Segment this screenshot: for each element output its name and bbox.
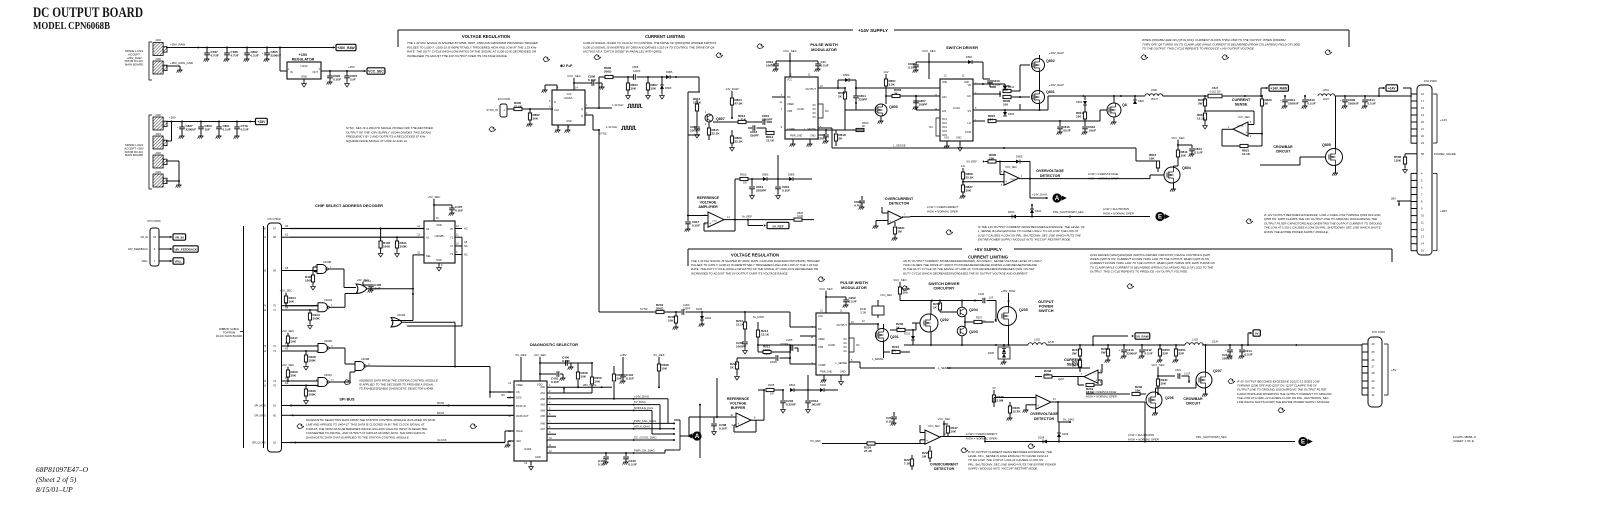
diode D801 bbox=[962, 61, 968, 63]
svg-text:VOLTAGE: VOLTAGE bbox=[700, 200, 717, 204]
svg-text:TO THE OUTPUT. THIS CYCLE RE: TO THE OUTPUT. THIS CYCLE REPEATS TO PRO… bbox=[1142, 47, 1255, 51]
wire U400A out bbox=[329, 306, 345, 308]
svg-text:L800: L800 bbox=[1151, 88, 1157, 92]
svg-text:PRL_SHUTDOWN_SEC: PRL_SHUTDOWN_SEC bbox=[1053, 210, 1084, 214]
pin 20 P300 bbox=[1411, 121, 1417, 123]
svg-text:VCC_SEC: VCC_SEC bbox=[893, 278, 906, 282]
brace +28V pins bbox=[1433, 172, 1437, 174]
note 14v overcurrent bbox=[946, 230, 953, 235]
resistor R802 10K bbox=[529, 108, 531, 110]
resistor R830 12K bbox=[988, 160, 996, 163]
svg-text:Q202: Q202 bbox=[940, 318, 949, 322]
resistor R216 2W bbox=[1079, 345, 1081, 349]
svg-text:1M: 1M bbox=[898, 229, 903, 233]
svg-text:CROWBAR: CROWBAR bbox=[1183, 397, 1203, 401]
wire hin straight bbox=[856, 87, 940, 89]
resistor R403b 100K bbox=[309, 309, 311, 311]
svg-text:0.1UF: 0.1UF bbox=[562, 359, 570, 363]
svg-text:VREF: VREF bbox=[818, 337, 825, 341]
net label 5V_REF box bbox=[767, 222, 789, 228]
svg-text:-: - bbox=[1245, 124, 1246, 128]
capacitor C208b 0.1UF bbox=[716, 378, 718, 417]
resistor R820 2K bbox=[1261, 96, 1263, 99]
svg-text:OUTPUT. THIS CYCLE REPEATS T: OUTPUT. THIS CYCLE REPEATS TO PRODUCE +5… bbox=[1090, 269, 1188, 273]
svg-text:E: E bbox=[1158, 215, 1162, 221]
svg-text:LO: LO bbox=[968, 121, 971, 125]
resistor R808 22.1K bbox=[961, 172, 964, 179]
pin AN 8 bbox=[547, 428, 556, 430]
svg-text:NC: NC bbox=[501, 393, 505, 397]
ground VAC bbox=[508, 440, 514, 442]
svg-text:HO: HO bbox=[967, 94, 971, 98]
wire U200 comp2 bbox=[790, 363, 816, 365]
svg-text:D802: D802 bbox=[1008, 112, 1015, 116]
capacitor C207 220PF bbox=[737, 357, 775, 359]
svg-text:J106: J106 bbox=[155, 57, 161, 61]
svg-text:1000UF: 1000UF bbox=[1288, 101, 1299, 105]
svg-text:Q201: Q201 bbox=[890, 335, 899, 339]
svg-text:A: A bbox=[695, 434, 700, 440]
net label 5V_RAW bbox=[1135, 333, 1150, 339]
wire ovd out bbox=[1019, 178, 1030, 180]
svg-text:OUT: OUT bbox=[312, 70, 318, 74]
wire sync down bbox=[598, 130, 600, 136]
diode D209 bbox=[1057, 433, 1061, 437]
bracket diag nets bbox=[674, 419, 680, 421]
svg-text:12.1K: 12.1K bbox=[766, 138, 775, 142]
svg-text:TO ENABLE/DISABLE DIAGNOSTIC S: TO ENABLE/DISABLE DIAGNOSTIC SELECTOR U4… bbox=[359, 386, 434, 390]
svg-text:CIRCUIT: CIRCUIT bbox=[1186, 402, 1201, 406]
svg-text:DIAGNOSTIC SELECTION DATA FROM: DIAGNOSTIC SELECTION DATA FROM THE STATI… bbox=[306, 418, 435, 422]
svg-text:1000PF: 1000PF bbox=[690, 128, 701, 132]
svg-text:U200: U200 bbox=[828, 343, 835, 347]
svg-text:+14V SUPPLY: +14V SUPPLY bbox=[858, 28, 888, 33]
svg-text:0.33UF: 0.33UF bbox=[786, 402, 796, 406]
svg-text:J103: J103 bbox=[155, 170, 161, 174]
svg-text:0.1UF: 0.1UF bbox=[251, 53, 259, 57]
pin AN 1 bbox=[547, 386, 556, 388]
svg-text:VR_IN: VR_IN bbox=[140, 235, 148, 239]
svg-text:NC: NC bbox=[844, 346, 848, 349]
svg-text:3V: 3V bbox=[992, 386, 996, 390]
svg-text:12.1K: 12.1K bbox=[1242, 152, 1251, 156]
svg-text:0.1UF: 0.1UF bbox=[719, 426, 727, 430]
wire P3 bbox=[290, 345, 318, 347]
svg-text:D804: D804 bbox=[789, 383, 796, 387]
svg-text:CROWBAR: CROWBAR bbox=[1273, 145, 1293, 149]
svg-text:2200PF: 2200PF bbox=[762, 117, 773, 121]
svg-text:(SHEET 1 OF 3): (SHEET 1 OF 3) bbox=[1453, 439, 1474, 443]
svg-text:NC: NC bbox=[844, 338, 848, 341]
svg-text:0.1UF: 0.1UF bbox=[629, 462, 637, 466]
svg-text:NC1: NC1 bbox=[942, 118, 947, 121]
svg-text:Q802: Q802 bbox=[1046, 59, 1055, 63]
svg-text:DETECTOR: DETECTOR bbox=[934, 467, 955, 471]
svg-text:C204: C204 bbox=[978, 292, 985, 296]
net PWR_FAIL_DIAG bbox=[556, 422, 674, 424]
svg-text:+: + bbox=[1005, 180, 1007, 184]
svg-text:Q206: Q206 bbox=[1165, 396, 1174, 400]
wire U104A preset gnd bbox=[556, 85, 558, 90]
pin 14 P300b bbox=[1411, 243, 1417, 245]
svg-text:12.7K: 12.7K bbox=[1013, 409, 1022, 413]
svg-text:2200PF: 2200PF bbox=[756, 188, 767, 192]
pin Y1 wire bbox=[455, 236, 462, 238]
resistor R214 2K bbox=[1078, 360, 1081, 367]
svg-text:10K: 10K bbox=[595, 379, 601, 383]
resistor R813 1.21K bbox=[713, 121, 738, 123]
svg-text:10K: 10K bbox=[631, 86, 637, 90]
resistor R801 3.2K bbox=[884, 79, 887, 86]
hand L800 3 bbox=[1325, 50, 1332, 55]
mosfet Q805 bbox=[1326, 149, 1343, 166]
svg-text:P3: P3 bbox=[285, 342, 289, 346]
svg-text:A5: A5 bbox=[464, 240, 468, 244]
svg-text:(Sheet 2 of 5): (Sheet 2 of 5) bbox=[36, 475, 77, 484]
svg-text:CHIP SELECT ADDRESS DECODER: CHIP SELECT ADDRESS DECODER bbox=[315, 203, 383, 208]
svg-text:GND: GND bbox=[566, 120, 572, 123]
svg-text:REFERENCE: REFERENCE bbox=[727, 397, 750, 401]
resistor R218 10K bbox=[1035, 376, 1042, 378]
svg-text:LOW = SHUTDOWN: LOW = SHUTDOWN bbox=[1128, 433, 1155, 437]
svg-text:P/O P200: P/O P200 bbox=[147, 219, 160, 223]
svg-text:INTLK_DIAG: INTLK_DIAG bbox=[634, 424, 650, 428]
wire VS out bbox=[973, 109, 1020, 111]
svg-text:Q: Q bbox=[581, 114, 583, 118]
svg-text:RC: RC bbox=[818, 327, 822, 331]
resistor R207 10 bbox=[965, 321, 974, 323]
resistor R229 1M bbox=[929, 446, 931, 450]
svg-text:2.5M: 2.5M bbox=[997, 398, 1004, 402]
svg-text:LOW = OVERCURRENT: LOW = OVERCURRENT bbox=[966, 432, 997, 436]
wire U101 riser bbox=[734, 179, 736, 220]
resistor R458 10K bbox=[577, 380, 579, 387]
svg-text:220PF: 220PF bbox=[770, 361, 778, 364]
svg-text:VRLL: VRLL bbox=[175, 259, 183, 263]
svg-text:-: - bbox=[1005, 173, 1006, 177]
resistor R809 100 bbox=[973, 93, 1000, 95]
svg-text:VCC_SEC: VCC_SEC bbox=[567, 74, 581, 78]
resistor R203 1K bbox=[890, 329, 897, 331]
svg-text:J101: J101 bbox=[155, 132, 161, 136]
pin 6 P300b bbox=[1411, 186, 1417, 188]
capacitor C212b 0.1UF bbox=[1141, 345, 1143, 349]
wire U401B out bbox=[403, 321, 456, 323]
resistor R402 100K bbox=[380, 229, 382, 242]
svg-text:22P: 22P bbox=[1179, 351, 1184, 355]
wire +28V rail bbox=[166, 121, 255, 123]
wire l_sense long bbox=[832, 147, 1136, 149]
nc bracket U110 bbox=[936, 118, 940, 136]
svg-text:SENSE: SENSE bbox=[1235, 103, 1248, 107]
ground J106 bbox=[177, 69, 182, 71]
svg-text:VCC_SEC: VCC_SEC bbox=[922, 49, 936, 53]
svg-text:10K: 10K bbox=[291, 339, 297, 343]
diode D805 bbox=[648, 76, 666, 78]
svg-text:Y0: Y0 bbox=[450, 227, 454, 231]
svg-text:CURRENT: CURRENT bbox=[1064, 358, 1083, 362]
wire U200 vfb bbox=[800, 335, 816, 337]
svg-text:0.1UF: 0.1UF bbox=[1195, 150, 1203, 154]
ground C786 bbox=[224, 58, 229, 60]
net label VCC_SEC box bbox=[364, 70, 366, 72]
svg-text:100UF: 100UF bbox=[766, 63, 775, 67]
svg-text:0.1UF: 0.1UF bbox=[1308, 101, 1316, 105]
svg-text:U100: U100 bbox=[797, 107, 804, 111]
nc bracket U100 bbox=[818, 104, 823, 118]
svg-text:+28V: +28V bbox=[1440, 209, 1447, 213]
marker A bottom bbox=[692, 431, 701, 440]
svg-text:D805: D805 bbox=[666, 70, 673, 74]
svg-text:0.1UF: 0.1UF bbox=[1145, 351, 1153, 355]
svg-text:NC: NC bbox=[856, 343, 860, 347]
svg-text:VSS: VSS bbox=[944, 137, 949, 140]
svg-text:+28V: +28V bbox=[620, 353, 627, 357]
svg-text:SPI BUS: SPI BUS bbox=[339, 398, 355, 402]
svg-text:100: 100 bbox=[903, 290, 908, 294]
svg-text:D: D bbox=[554, 100, 556, 104]
resistor R205 10K bbox=[675, 312, 677, 316]
resistor R230 10K bbox=[1122, 393, 1130, 395]
capacitor C204 bbox=[975, 300, 982, 302]
bus +14V pins bbox=[1410, 94, 1412, 143]
svg-text:Y2: Y2 bbox=[450, 244, 454, 248]
marker E top bbox=[1155, 212, 1164, 221]
svg-text:0.1UF: 0.1UF bbox=[908, 65, 916, 69]
svg-text:SWITCH DRIVER: SWITCH DRIVER bbox=[946, 45, 978, 50]
svg-text:DATA IN: DATA IN bbox=[516, 404, 526, 408]
svg-text:VFB: VFB bbox=[818, 345, 823, 349]
wire CS link bbox=[455, 366, 490, 368]
svg-text:0.1UF: 0.1UF bbox=[1368, 101, 1376, 105]
pin 17 P300 bbox=[1411, 100, 1417, 102]
pin 12 P300b bbox=[1411, 229, 1417, 231]
connector J101 bbox=[153, 136, 163, 149]
svg-text:RIBBON CABLE: RIBBON CABLE bbox=[219, 327, 239, 331]
capacitor C811 1000UF bbox=[1284, 96, 1286, 99]
svg-text:VCC: VCC bbox=[787, 79, 792, 82]
svg-text:5V_REF: 5V_REF bbox=[810, 439, 821, 443]
ground U103 bbox=[303, 79, 305, 82]
nc bracket U200 bbox=[849, 338, 854, 352]
resistor R211 100K bbox=[757, 345, 759, 352]
wire A3 bbox=[290, 350, 318, 352]
resistor R231 10K bbox=[1157, 376, 1159, 379]
svg-text:U103: U103 bbox=[301, 64, 308, 68]
svg-text:+: + bbox=[737, 422, 739, 426]
svg-text:Y1: Y1 bbox=[450, 236, 454, 240]
pin 19 P300 bbox=[1411, 114, 1417, 116]
svg-text:A0: A0 bbox=[285, 224, 289, 228]
ground U200 pins bbox=[823, 375, 825, 380]
svg-text:Q: Q bbox=[581, 107, 583, 111]
svg-text:D808: D808 bbox=[788, 173, 795, 177]
resistor R804 1K bbox=[844, 88, 846, 92]
svg-text:Q800: Q800 bbox=[889, 105, 898, 109]
svg-text:CLOCK: CLOCK bbox=[437, 438, 447, 442]
capacitor C816 .01UF bbox=[1059, 121, 1061, 126]
svg-text:U402B: U402B bbox=[435, 234, 444, 238]
svg-text:10K: 10K bbox=[1149, 156, 1155, 160]
resistor R803 2K bbox=[885, 95, 887, 97]
svg-text:VCC_SEC: VCC_SEC bbox=[1151, 363, 1164, 367]
net label +14V_RAW bbox=[1269, 85, 1288, 91]
svg-text:SYNC: SYNC bbox=[599, 132, 607, 136]
svg-text:POWER_SHARE: POWER_SHARE bbox=[1434, 152, 1456, 156]
resistor R208 1W bbox=[758, 389, 764, 391]
svg-text:Q207: Q207 bbox=[1213, 369, 1222, 373]
svg-text:J104: J104 bbox=[155, 38, 161, 42]
net 5V_DIAG bbox=[556, 404, 660, 406]
resistor R204 1K bbox=[900, 300, 975, 302]
svg-text:CS: CS bbox=[516, 390, 520, 394]
svg-text:MISO: MISO bbox=[437, 411, 445, 415]
pin 16 P300 bbox=[1411, 93, 1417, 95]
pin 11 P300b bbox=[1411, 222, 1417, 224]
svg-text:0.1UF: 0.1UF bbox=[692, 223, 700, 227]
svg-text:1.33 KHz: 1.33 KHz bbox=[612, 103, 624, 107]
resistor R900 21.6K bbox=[507, 108, 514, 110]
mosfet Q201 bbox=[876, 329, 889, 342]
note address data bbox=[344, 380, 351, 385]
svg-text:10K: 10K bbox=[966, 188, 972, 192]
svg-text:LIN: LIN bbox=[942, 109, 946, 113]
svg-text:0.1UF: 0.1UF bbox=[333, 77, 341, 81]
svg-text:P/O P300: P/O P300 bbox=[1372, 330, 1385, 334]
svg-text:120PF: 120PF bbox=[633, 70, 641, 73]
svg-text:RC: RC bbox=[787, 95, 791, 99]
wire U101 left vertical bbox=[687, 135, 689, 216]
svg-text:SPI_CLOCK: SPI_CLOCK bbox=[252, 442, 266, 445]
pin AN 12 bbox=[547, 452, 556, 454]
brace +14V pins bbox=[1433, 93, 1437, 95]
svg-text:-: - bbox=[889, 212, 890, 216]
svg-text:+28V_RAW: +28V_RAW bbox=[1049, 83, 1064, 87]
svg-text:+14V_RAW: +14V_RAW bbox=[1270, 86, 1287, 90]
svg-text:+5V_SEC: +5V_SEC bbox=[282, 363, 295, 367]
svg-text:Y3: Y3 bbox=[450, 252, 454, 256]
svg-text:-: - bbox=[926, 432, 927, 436]
wire ovd2 to crowbar bbox=[1086, 393, 1122, 395]
ground C826 bbox=[327, 81, 332, 83]
svg-text:+28V_RAW: +28V_RAW bbox=[337, 46, 355, 50]
node regulator drop bbox=[279, 47, 281, 49]
resistor R825 sense bbox=[1208, 94, 1222, 98]
svg-text:A2: A2 bbox=[285, 381, 289, 385]
svg-text:CURRENT LIMITING: CURRENT LIMITING bbox=[645, 34, 685, 39]
hand CL top 3 bbox=[757, 44, 764, 49]
wire ovd2 out bbox=[1058, 401, 1145, 403]
svg-text:+: + bbox=[709, 222, 711, 226]
wire +28V_RAW_GND bbox=[166, 65, 180, 67]
wire l_sense U100 bbox=[818, 127, 832, 129]
capacitor C816b bbox=[1084, 124, 1086, 126]
capacitor C814 0.1UF bbox=[1364, 96, 1366, 99]
gate U400B2 bbox=[355, 362, 365, 371]
svg-text:L_SENSE: L_SENSE bbox=[835, 361, 847, 365]
svg-text:100: 100 bbox=[1076, 114, 1081, 118]
svg-text:C207: C207 bbox=[764, 352, 771, 356]
resistor R815 22.1K bbox=[708, 122, 710, 128]
op-amp U202A cs2 bbox=[1084, 370, 1098, 383]
svg-text:10K: 10K bbox=[951, 429, 957, 433]
mosfet Q202 bbox=[920, 314, 938, 332]
wire rail 5v 2 bbox=[1046, 344, 1102, 346]
svg-text:GND: GND bbox=[436, 258, 442, 262]
svg-text:22UH: 22UH bbox=[1048, 341, 1055, 344]
svg-text:NC: NC bbox=[464, 244, 468, 248]
svg-text:REFERENCE: REFERENCE bbox=[697, 196, 720, 200]
svg-text:+5V_SEC: +5V_SEC bbox=[282, 329, 295, 333]
wire +28V_RAW bbox=[166, 47, 280, 49]
capacitor C807b 100PF bbox=[915, 96, 917, 100]
wire rail2 bbox=[1163, 95, 1208, 97]
svg-text:MODULATOR: MODULATOR bbox=[841, 285, 867, 290]
svg-text:.1UF: .1UF bbox=[988, 297, 994, 300]
svg-text:NC3: NC3 bbox=[942, 126, 947, 129]
resistor R831 bbox=[894, 222, 896, 226]
svg-text:120PF: 120PF bbox=[683, 307, 691, 310]
svg-text:POWER: POWER bbox=[1039, 305, 1054, 309]
ground C827 bbox=[179, 135, 184, 137]
wire Qbar out bbox=[585, 114, 593, 116]
resistor R250 22 bbox=[1159, 345, 1161, 349]
svg-text:NC: NC bbox=[464, 253, 468, 257]
svg-text:CLK: CLK bbox=[554, 108, 559, 112]
svg-text:NC: NC bbox=[813, 116, 817, 119]
svg-text:4.7UF: 4.7UF bbox=[211, 53, 219, 57]
svg-text:10K: 10K bbox=[533, 116, 539, 120]
svg-text:.01UF: .01UF bbox=[1088, 128, 1096, 132]
svg-text:D811: D811 bbox=[1035, 209, 1042, 213]
svg-text:100K: 100K bbox=[309, 358, 317, 362]
svg-text:220PF: 220PF bbox=[750, 133, 759, 137]
wire U400D out bbox=[329, 347, 345, 349]
hand L800 1 bbox=[1141, 55, 1148, 60]
pin 27 P300c bbox=[1362, 366, 1368, 368]
resistor R827 10K bbox=[962, 182, 964, 185]
svg-text:AN2: AN2 bbox=[540, 398, 545, 401]
svg-text:✱2 F=F: ✱2 F=F bbox=[560, 64, 573, 68]
svg-text:AMPLIFIER: AMPLIFIER bbox=[698, 205, 718, 209]
svg-text:U101: U101 bbox=[712, 221, 718, 223]
pin 31 P300c bbox=[1362, 394, 1368, 396]
resistor R820 34.8K bbox=[748, 219, 794, 221]
wire AN2 stub bbox=[556, 392, 564, 394]
capacitor C819 1000PF bbox=[696, 120, 698, 126]
svg-text:7.1K: 7.1K bbox=[904, 461, 911, 465]
svg-text:VCC_SEC: VCC_SEC bbox=[783, 49, 797, 53]
wire ovd to A bbox=[1029, 179, 1031, 198]
svg-text:MODULE_FAIL: MODULE_FAIL bbox=[634, 406, 654, 410]
svg-text:AN5: AN5 bbox=[540, 415, 545, 418]
resistor R406 100K bbox=[305, 385, 307, 389]
svg-text:U404-18. THE MOSI DATA DETERM: U404-18. THE MOSI DATA DETERMINES WHICH … bbox=[306, 427, 428, 431]
svg-text:D208: D208 bbox=[1038, 436, 1045, 440]
capacitor C810 0.1UF bbox=[973, 83, 983, 85]
capacitor C786 bbox=[226, 47, 228, 49]
svg-text:100: 100 bbox=[988, 117, 993, 121]
svg-text:22uH: 22uH bbox=[1323, 98, 1329, 101]
op-amp U101 ref amp bbox=[708, 212, 724, 227]
svg-text:NC: NC bbox=[464, 227, 468, 231]
svg-text:+5V_SEC: +5V_SEC bbox=[534, 353, 547, 357]
pin 21 P300 bbox=[1411, 128, 1417, 130]
svg-text:SPI_MOSI: SPI_MOSI bbox=[254, 405, 266, 408]
mosfet Q802 bbox=[1032, 59, 1045, 72]
svg-text:VDD: VDD bbox=[436, 223, 442, 227]
svg-text:D806: D806 bbox=[762, 173, 769, 177]
